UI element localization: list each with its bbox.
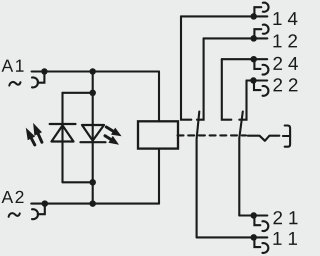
wire LED1 branch vertical xyxy=(61,93,63,183)
wire LED branch drop xyxy=(92,72,94,93)
terminal A1 label xyxy=(2,60,24,72)
junction dot 11 xyxy=(250,234,257,241)
wire LED bottom link xyxy=(63,181,93,183)
terminal 22 label xyxy=(273,78,297,91)
junction dot A2 terminal xyxy=(42,200,49,207)
mechanical link (dashed) xyxy=(178,134,247,136)
wire terminal 11 xyxy=(197,236,268,238)
wire A2 horizontal xyxy=(31,203,159,205)
wire A1 horizontal xyxy=(32,70,159,72)
LED D2 emission arrow 2 xyxy=(105,136,119,145)
contact 2 NC fixed (from 22) xyxy=(239,81,246,120)
wire LED to A2 xyxy=(92,182,94,203)
contact 2 movable lever (to 21) xyxy=(239,112,243,216)
terminal 12 label xyxy=(273,34,297,47)
junction dot 14 xyxy=(250,13,257,20)
terminal 12 clamp xyxy=(254,25,268,39)
relay coil K1 xyxy=(138,121,178,148)
mechanical link detent xyxy=(248,136,279,141)
contact 2 NO fixed (from 24) xyxy=(222,59,232,119)
AC symbol at A2 xyxy=(9,213,20,217)
junction dot LED bottom xyxy=(89,179,96,186)
contact 1 movable lever (to 11) xyxy=(197,112,200,238)
LED D1 (left, cathode up) xyxy=(50,124,76,142)
LED D1 emission arrow 1 xyxy=(26,128,35,145)
terminal A1 clamp xyxy=(32,72,44,88)
terminal 24 clamp xyxy=(254,59,268,74)
junction dot A2/LED branch xyxy=(89,200,96,207)
junction dot LED top xyxy=(89,90,96,97)
LED D2 emission arrow 1 xyxy=(106,127,121,136)
terminal 14 clamp xyxy=(254,3,268,17)
contact 1 NC fixed (from 12) xyxy=(197,38,204,119)
terminal 21 clamp xyxy=(254,216,268,232)
wire coil top lead xyxy=(158,72,160,122)
AC symbol at A1 xyxy=(9,82,20,86)
wire LED2 branch vertical xyxy=(92,93,94,183)
wire terminal 21 xyxy=(239,214,267,216)
wire LED top link xyxy=(63,92,93,94)
terminal 11 clamp xyxy=(254,237,268,253)
wire terminal 22 xyxy=(247,79,268,81)
wire terminal 12 xyxy=(204,37,268,39)
junction dot 24 xyxy=(250,56,257,63)
junction dot 12 xyxy=(250,35,257,42)
armature bracket xyxy=(283,126,290,147)
terminal 24 label xyxy=(273,57,297,70)
terminal 14 label xyxy=(273,12,297,25)
contact 1 NO fixed (from 14) xyxy=(181,16,191,119)
LED D2 (right, cathode down) xyxy=(81,125,106,142)
terminal 11 label xyxy=(273,232,297,245)
wire coil bottom lead xyxy=(158,149,160,204)
terminal A2 clamp xyxy=(32,204,45,220)
wire terminal 24 xyxy=(222,58,267,60)
junction dot A1 terminal xyxy=(41,68,48,75)
terminal 22 clamp xyxy=(254,81,268,96)
terminal 21 label xyxy=(273,211,297,224)
junction dot 22 xyxy=(250,77,257,84)
junction dot A1/LED branch xyxy=(89,68,96,75)
junction dot 21 xyxy=(250,212,257,219)
terminal A2 label xyxy=(2,191,24,203)
wire terminal 14 xyxy=(181,15,267,17)
LED D1 emission arrow 2 xyxy=(33,123,42,142)
